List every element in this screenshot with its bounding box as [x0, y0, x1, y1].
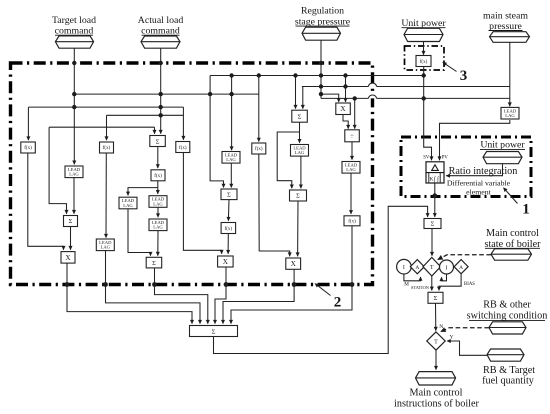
terminator main steam pressure	[490, 32, 530, 43]
wire sum B3 to f(x) B14	[157, 147, 159, 169]
terminator RB and Target fuel quantity	[487, 349, 524, 361]
block f(x) B27	[344, 216, 360, 226]
wire X B26 down to load sum B28	[223, 269, 294, 323]
svg-text:LAG: LAG	[295, 150, 305, 155]
transfer diamond T1	[423, 257, 441, 276]
block f(x) B21	[221, 223, 236, 234]
wire LEAD LAG B11 to sum B19	[300, 156, 302, 188]
svg-text:A: A	[459, 265, 463, 271]
wire LEAD LAG B22 down to load sum B28	[106, 251, 201, 324]
block f(x) B4	[176, 142, 190, 153]
block f(x) B1	[21, 142, 36, 153]
block LEAD LAG B16	[149, 196, 167, 208]
svg-text:element: element	[466, 187, 492, 196]
wire f(x) B4 to multiplier X B25	[183, 153, 221, 254]
wire LEAD LAG B12 to f(x) B27	[350, 173, 352, 214]
switch diamond T2 (N/Y)	[427, 332, 445, 350]
wire T2 down to sum	[302, 87, 304, 109]
wire RB Target fuel quantity to switch diamond Y input	[447, 341, 487, 355]
svg-text:3: 3	[460, 68, 468, 84]
auto diamond A1	[410, 260, 424, 274]
multiplier X B8	[336, 103, 351, 115]
block f(x) B31 (area 3)	[416, 56, 431, 67]
svg-text:I: I	[446, 265, 448, 271]
multiplier X B24	[61, 252, 75, 264]
svg-text:Σ: Σ	[227, 192, 231, 199]
svg-text:X: X	[340, 105, 346, 113]
wire Wb right leg to f(x)	[182, 107, 184, 140]
svg-text:Ratio integration: Ratio integration	[449, 166, 518, 177]
block LEAD LAG B9 (main steam)	[501, 107, 519, 119]
block LEAD LAG B22	[96, 239, 114, 251]
wire I2 loop to T	[442, 274, 447, 281]
svg-text:T: T	[434, 339, 438, 345]
svg-text:Σ: Σ	[69, 218, 73, 225]
svg-text:1: 1	[522, 202, 530, 218]
wire sum B20 down to load sum B28	[155, 268, 208, 324]
wire ratio block output to sum B29	[434, 183, 436, 217]
svg-text:2: 2	[334, 295, 342, 311]
wire T1 leg to LEAD LAG B5	[231, 76, 233, 151]
wire branch regulation to multiplier X	[321, 94, 339, 102]
svg-text:SV: SV	[423, 156, 430, 161]
wire LEAD LAG output to ratio block PV	[440, 120, 510, 160]
svg-text:Σ: Σ	[298, 114, 302, 121]
wire sum B29 to transfer diamond T	[431, 229, 433, 256]
wire actual load command drop to sum	[160, 48, 162, 133]
multiplier X B25	[218, 256, 234, 267]
wire f(x) B2 to LEAD LAG B22	[105, 153, 107, 238]
svg-text:A: A	[415, 265, 419, 271]
wire bus T4 right of frame	[377, 97, 510, 99]
summer B29	[424, 219, 441, 229]
wire Unit power to ratio block side input	[446, 164, 502, 176]
summer B28 (load demand sum)	[190, 326, 238, 337]
svg-text:T: T	[430, 265, 434, 271]
svg-text:Regulation: Regulation	[301, 6, 344, 17]
svg-text:Differential variable: Differential variable	[447, 178, 511, 187]
block LEAD LAG B13	[65, 166, 83, 178]
summer B19	[290, 190, 307, 201]
svg-text:instructions of boiler: instructions of boiler	[394, 399, 479, 410]
wire regulation stage pressure drop	[320, 40, 322, 98]
svg-text:LAG: LAG	[153, 225, 163, 230]
wire branch B7 to sum B19	[277, 132, 299, 188]
terminator Main control state of boiler	[491, 249, 532, 260]
terminator Main control instructions of boiler	[416, 372, 456, 385]
svg-text:LAG: LAG	[101, 245, 111, 250]
wire LEAD LAG B16 to LEAD LAG B17	[157, 207, 159, 217]
svg-text:M: M	[404, 282, 409, 288]
svg-text:Unit power: Unit power	[480, 140, 525, 151]
svg-text:f(x): f(x)	[225, 227, 233, 232]
frame area 2 (dash-dot boundary of main control calculation area)	[11, 63, 373, 285]
wire T1 leg to sum B18	[210, 76, 223, 188]
frame area 3 (dash-dot boundary, unit power f(x) box)	[405, 46, 445, 70]
svg-text:RB & other: RB & other	[483, 300, 531, 311]
svg-text:f(x): f(x)	[420, 60, 428, 65]
svg-text:Σ: Σ	[434, 295, 438, 302]
svg-text:LAG: LAG	[69, 172, 79, 177]
wire bus T1	[210, 75, 424, 77]
indicator circle I2	[440, 260, 454, 274]
junction dots on buses	[72, 61, 76, 65]
wire bus Wc	[107, 114, 184, 116]
svg-text:∫: ∫	[436, 176, 439, 183]
wire Wc left leg to f(x)	[106, 115, 108, 140]
svg-text:∫: ∫	[433, 176, 436, 183]
dashed wire RB other to switch diamond N input	[441, 328, 489, 332]
svg-text:LAG: LAG	[505, 113, 515, 118]
wire Wd left leg into sum B23	[49, 127, 66, 214]
wire I1 loop to T	[404, 274, 421, 281]
wire sum B30 to switch diamond	[435, 303, 437, 330]
wire LEAD LAG B5 to sum B18	[230, 163, 232, 187]
wire divider B10 to LEAD LAG B12	[351, 142, 353, 160]
auto diamond A2	[454, 260, 468, 274]
svg-text:fuel quantity: fuel quantity	[482, 376, 535, 387]
svg-text:PV: PV	[442, 156, 449, 161]
svg-text:Σ: Σ	[152, 260, 156, 267]
terminator Actual load command	[141, 36, 180, 48]
leader arrow for 3	[443, 62, 457, 71]
wire bus T4 left of frame	[321, 97, 369, 99]
wire branch f(x) B14 to LEAD LAG B15	[128, 188, 158, 196]
svg-text:main steam: main steam	[483, 10, 528, 21]
svg-text:Actual load: Actual load	[138, 15, 184, 26]
wire f(x) B6 to multiplier X B26	[259, 154, 290, 256]
svg-text:Σ: Σ	[296, 193, 300, 200]
svg-text:X: X	[291, 260, 297, 268]
block LEAD LAG B12	[342, 162, 360, 174]
terminator Target load command	[55, 36, 93, 48]
summer B20	[146, 257, 162, 268]
summer B30	[428, 292, 443, 303]
wire LEAD LAG B13 to sum B23	[73, 178, 75, 214]
svg-text:Σ: Σ	[431, 221, 435, 228]
block LEAD LAG B5	[222, 152, 240, 164]
wire X B24 down to load sum B28	[67, 263, 192, 324]
svg-text:X: X	[65, 254, 71, 262]
ratio integration block U1	[426, 162, 444, 183]
wire bus Wa	[74, 93, 258, 95]
wire sum B7 to LEAD LAG B11	[299, 122, 301, 143]
wire T1 down to sum	[295, 76, 297, 109]
svg-text:X: X	[223, 258, 229, 266]
svg-text:Y: Y	[450, 334, 454, 340]
terminator Unit power (top)	[404, 28, 443, 41]
svg-text:Main control: Main control	[486, 228, 539, 239]
svg-text:LAG: LAG	[123, 203, 133, 208]
terminator RB and other switching condition	[489, 322, 526, 334]
wire T4 down to divider	[354, 98, 356, 128]
wire Wb left leg to f(x)	[27, 107, 29, 140]
svg-text:LAG: LAG	[346, 167, 356, 172]
wire LEAD LAG B15 to sum B20	[128, 209, 151, 256]
svg-text:Target load: Target load	[52, 15, 96, 26]
summer B18	[221, 189, 237, 200]
block LEAD LAG B15	[119, 197, 137, 209]
wire sum B18 to f(x) B21	[227, 200, 230, 221]
svg-text:f(x): f(x)	[255, 147, 263, 152]
svg-text:f(x): f(x)	[103, 146, 111, 151]
svg-text:f(x): f(x)	[179, 146, 187, 151]
block f(x) B14	[151, 170, 165, 181]
svg-text:K: K	[429, 176, 433, 182]
svg-text:LAG: LAG	[226, 157, 236, 162]
wire X B25 down to load sum B28	[215, 267, 226, 324]
svg-text:f(x): f(x)	[154, 174, 162, 179]
wire LEAD LAG B17 to sum B20	[157, 231, 159, 256]
block LEAD LAG B11	[291, 145, 309, 157]
terminator Regulation stage pressure	[302, 27, 341, 40]
dashed wire state of boiler to T diamond	[438, 255, 491, 260]
multiplier X B26	[286, 258, 301, 269]
block f(x) B2	[100, 142, 114, 153]
summer B3	[150, 136, 166, 147]
leader arrow for 2	[315, 284, 331, 296]
wire f(x) B1 to multiplier X B24	[28, 153, 64, 250]
wire main steam pressure into LEAD LAG	[509, 42, 511, 106]
indicator circle I1	[397, 259, 412, 274]
svg-text:Σ: Σ	[212, 328, 216, 335]
svg-text:LAG: LAG	[153, 201, 163, 206]
wire bus Wd	[49, 126, 154, 128]
block f(x) B6	[252, 143, 266, 154]
leader arrow for 1	[504, 188, 518, 204]
wire f(x) B14 to LEAD LAG B16	[157, 181, 159, 194]
wire sum B19 to multiplier X B26	[297, 201, 299, 256]
terminator Unit power (area 1)	[483, 152, 522, 164]
wire BIAS A2 to sum B30	[439, 274, 461, 291]
svg-text:Σ: Σ	[156, 138, 160, 145]
svg-text:÷: ÷	[350, 132, 354, 140]
svg-text:switching condition: switching condition	[467, 311, 548, 322]
wire Unit power into f(x) of area 3	[423, 42, 425, 55]
wire bus T2 left of frame	[302, 86, 369, 88]
svg-text:RB & Target: RB & Target	[483, 365, 535, 376]
wire T output to sum B30	[431, 276, 433, 290]
wire bus T2 right of frame	[377, 86, 510, 88]
wire bus Wb	[28, 106, 183, 108]
wire X B8 to divider B10	[343, 115, 348, 129]
svg-text:f(x): f(x)	[348, 220, 356, 225]
block LEAD LAG B17	[149, 219, 167, 231]
summer B7	[292, 110, 308, 122]
svg-text:BIAS: BIAS	[464, 282, 475, 287]
wire T1 down to multiplier X	[345, 76, 347, 102]
wire f(x) B27 down to load sum B28	[231, 226, 352, 324]
wire f(x) area3 output down to ratio block SV	[424, 66, 432, 160]
svg-text:I: I	[403, 265, 405, 271]
wire T1 leg to f(x) B6	[258, 76, 260, 142]
frame area 1 (dash-dot boundary, ratio integration area)	[401, 137, 531, 197]
wire load sum B28 output feedback to sum B29	[214, 206, 428, 353]
wire sum B23 to multiplier X B24	[70, 227, 72, 250]
wire switch diamond to main control instructions terminator	[435, 350, 437, 369]
wire target load command drop to LEAD LAG	[73, 48, 75, 164]
svg-text:f(x): f(x)	[24, 146, 32, 151]
summer B23	[64, 216, 78, 227]
junction blobs where wires cross frame 2	[65, 282, 70, 287]
svg-text:N: N	[439, 324, 443, 330]
wire Wd right leg into sum	[154, 127, 156, 134]
wire f(x) B21 to multiplier X B25	[227, 234, 229, 254]
svg-text:Main control: Main control	[410, 387, 463, 398]
svg-text:STATION: STATION	[411, 285, 430, 290]
divider B10	[345, 130, 360, 142]
